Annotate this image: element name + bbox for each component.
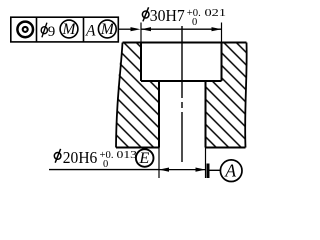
phi20 dimension line — [159, 169, 206, 171]
phi20 dim right arrowhead — [196, 168, 206, 172]
hatched section left region — [116, 43, 159, 148]
small hole right wall — [205, 81, 207, 148]
svg-text:E: E — [138, 148, 149, 167]
envelope symbol circle E — [136, 149, 154, 167]
centerline — [181, 26, 183, 162]
svg-text:20H6: 20H6 — [63, 148, 98, 167]
svg-text:0: 0 — [192, 17, 197, 28]
right break edge — [245, 43, 247, 148]
datum circle — [220, 160, 242, 182]
svg-text:0: 0 — [103, 159, 108, 170]
part bottom surface right — [206, 147, 246, 149]
counterbore right wall — [221, 43, 223, 82]
tolerance value phi9 diameter symbol — [41, 23, 47, 38]
svg-text:A: A — [224, 161, 236, 181]
svg-text:30H7: 30H7 — [150, 6, 185, 25]
phi30 right extension line — [221, 23, 223, 43]
frame divider 1 — [36, 17, 38, 42]
phi20 left extension line — [158, 148, 160, 179]
part bottom surface left — [116, 147, 159, 149]
modifier M circle (tolerance) — [60, 20, 78, 38]
phi30 dim right arrowhead — [212, 27, 222, 31]
frame divider 2 — [83, 17, 85, 42]
svg-text:M: M — [100, 21, 115, 38]
concentricity symbol inner circle — [23, 27, 28, 32]
svg-text:021: 021 — [205, 8, 227, 19]
phi30 dimension line — [141, 28, 222, 30]
counterbore left wall — [140, 43, 142, 82]
left break edge — [116, 43, 123, 148]
small hole left wall — [158, 81, 160, 148]
svg-text:A: A — [85, 22, 96, 39]
phi20 text shelf line — [49, 169, 159, 171]
datum connector line — [210, 169, 221, 171]
phi20 right extension line — [205, 148, 207, 179]
phi30 left extension line — [140, 23, 142, 43]
concentricity symbol outer circle — [17, 22, 33, 38]
svg-text:9: 9 — [48, 24, 56, 40]
svg-text:M: M — [62, 21, 77, 38]
feature control frame outer box — [11, 17, 119, 42]
hatched section right region — [206, 43, 247, 148]
svg-text:013: 013 — [117, 150, 138, 161]
phi20 diameter symbol — [54, 149, 61, 163]
modifier M circle (datum) — [98, 20, 116, 38]
counterbore shoulder — [141, 80, 222, 82]
phi20 dim left arrowhead — [159, 168, 169, 172]
phi30 diameter symbol — [142, 7, 149, 21]
phi30 dim left arrowhead — [141, 27, 151, 31]
leader arrowhead — [131, 27, 141, 31]
part top surface — [123, 42, 247, 44]
datum thick bar — [207, 164, 210, 179]
leader line from frame — [118, 28, 132, 30]
